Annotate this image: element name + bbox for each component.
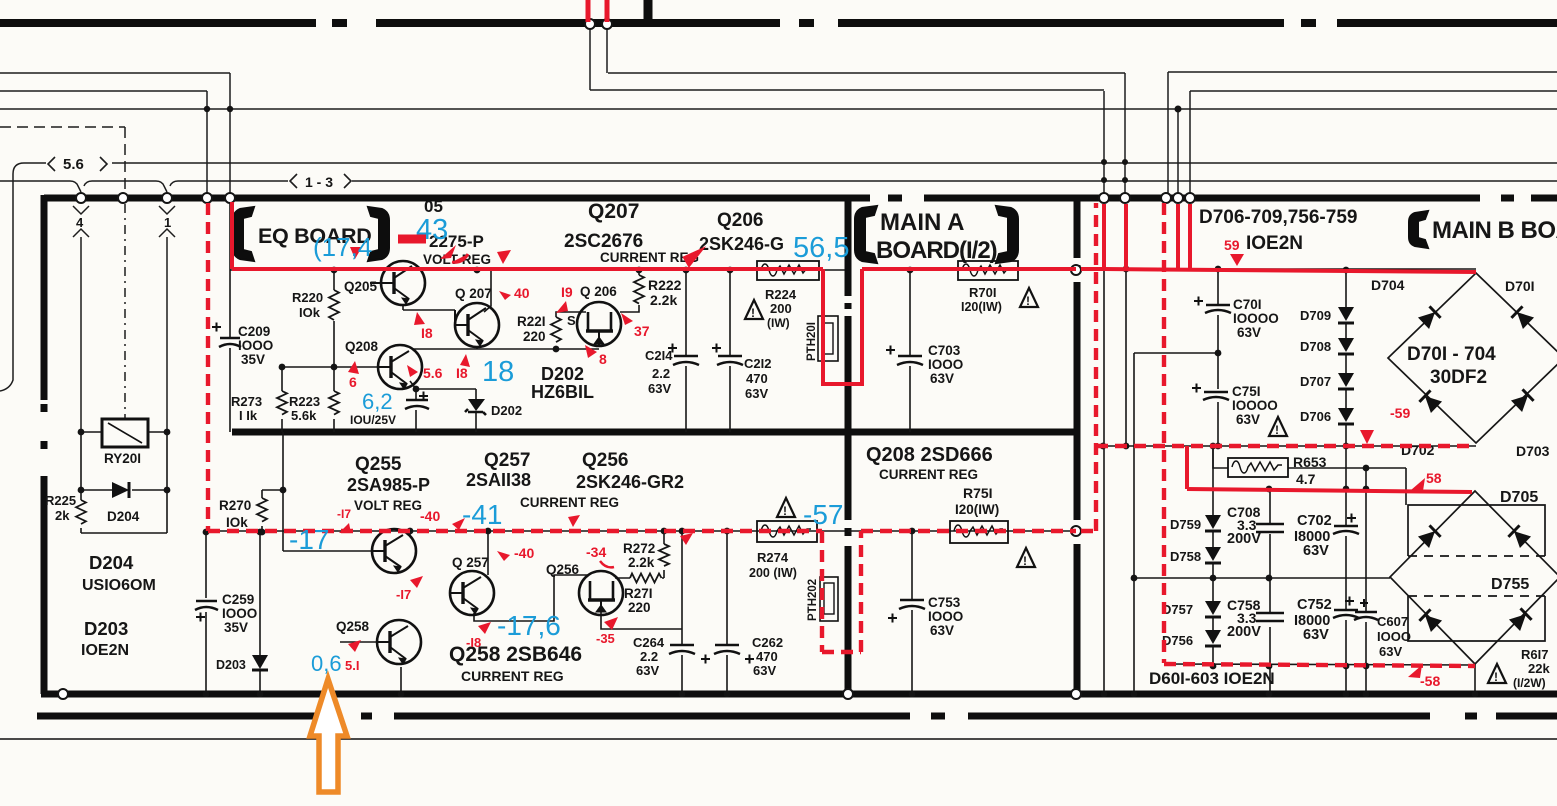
heavy dashed bus y716: [37, 713, 1557, 720]
svg-text:-35: -35: [596, 631, 615, 646]
svg-text:D60I-603 IOE2N: D60I-603 IOE2N: [1149, 669, 1275, 688]
wire verticals below pins: [81, 243, 167, 432]
wire 5.6 net y162: [0, 163, 1557, 391]
blue note -17,6: [497, 610, 561, 641]
board top border y198: [44, 195, 1557, 202]
svg-text:D759: D759: [1170, 517, 1201, 532]
warning triangle EQ: [745, 300, 763, 320]
wire D204 rail y490: [81, 489, 167, 491]
svg-text:63V: 63V: [648, 381, 671, 396]
transistor Q205: [370, 261, 425, 305]
diode D709: [1300, 307, 1354, 323]
red trace MAIN B rail to bridge: [1104, 269, 1476, 272]
svg-text:IOOO: IOOO: [238, 338, 273, 353]
red mark -59: [1360, 405, 1410, 444]
thin rule y739: [0, 738, 1557, 740]
blue note 43: [416, 214, 448, 246]
wire C259 column: [205, 532, 207, 694]
small ref labels lower: [336, 555, 580, 634]
wire x1126 column: [1125, 270, 1127, 446]
wire C607 column: [1365, 468, 1367, 694]
red mark -40 left: [420, 508, 465, 530]
red mark -40 mid: [497, 545, 534, 561]
svg-text:63V: 63V: [1379, 644, 1402, 659]
resistor R274 boxed: [749, 521, 817, 580]
svg-text:(17,4: (17,4: [313, 232, 372, 262]
wire C214 column: [685, 270, 687, 432]
bridge labels D705 D755: [1491, 489, 1538, 593]
svg-text:6: 6: [349, 374, 357, 390]
svg-text:D203: D203: [216, 658, 246, 672]
svg-text:Q256: Q256: [546, 562, 580, 577]
svg-text:470: 470: [746, 371, 768, 386]
wire Q207 collector to rail: [484, 270, 491, 312]
svg-text:4: 4: [76, 215, 84, 230]
wire C264 column: [681, 531, 683, 694]
transistor Q256 jfet: [579, 571, 623, 615]
svg-text:63V: 63V: [1303, 627, 1329, 643]
text Q207 type: [564, 200, 699, 265]
resistor R224 boxed: [757, 261, 819, 330]
diode D204: [107, 482, 140, 524]
svg-text:63V: 63V: [930, 371, 954, 386]
wire relay top rail y432: [81, 431, 167, 433]
red arrow current reg lower: [680, 533, 693, 545]
red annotation marks MAIN B: [1224, 237, 1442, 689]
svg-text:D202: D202: [541, 364, 584, 384]
dash-dot wire x125 to relay: [124, 204, 126, 418]
text Q256 type: [520, 450, 684, 510]
red arrow volt reg upper: [497, 250, 511, 264]
svg-text:IOOO: IOOO: [928, 609, 963, 624]
text Q205 type: [423, 197, 491, 267]
junction dots MAIN B: [1100, 266, 1479, 698]
junction dots on y109: [204, 106, 1182, 113]
svg-text:8: 8: [599, 351, 607, 367]
svg-text:Q208 2SD666: Q208 2SD666: [866, 444, 993, 466]
red mark 6: [348, 361, 359, 390]
svg-text:R273: R273: [231, 394, 262, 409]
svg-text:D204: D204: [107, 509, 140, 524]
wire vertical x207: [206, 91, 208, 194]
svg-text:VOLT REG: VOLT REG: [354, 498, 422, 513]
svg-text:!: !: [751, 306, 755, 320]
red dashed jog around PTH202: [822, 531, 861, 652]
svg-text:Q205: Q205: [344, 279, 378, 294]
red trace MAIN A rail: [862, 267, 1104, 271]
svg-text:D706: D706: [1300, 409, 1331, 424]
svg-text:IOE2N: IOE2N: [81, 642, 129, 659]
wire x81 segment: [80, 432, 82, 533]
text D706-709 row: [1199, 207, 1357, 254]
svg-text:1: 1: [164, 215, 171, 230]
text D203 10E2N: [81, 618, 129, 659]
wire x1104 column: [1103, 270, 1105, 694]
PTH201: [806, 316, 838, 361]
MAIN A BOARD title: [855, 206, 1018, 264]
svg-text:C262: C262: [752, 635, 783, 650]
text Q258 type: [449, 643, 582, 684]
wire Q207 emitter stub: [476, 347, 478, 349]
junction dots left block: [78, 429, 264, 698]
svg-text:!: !: [783, 504, 787, 518]
text D204 US1060M: [82, 552, 156, 594]
junction dots on y162/y180 right: [1101, 159, 1128, 183]
svg-text:200V: 200V: [1227, 531, 1261, 547]
svg-text:Q 206: Q 206: [580, 284, 617, 299]
transistor Q208: [378, 345, 422, 389]
wire Q255 collector: [409, 531, 411, 536]
svg-text:R222: R222: [648, 277, 682, 293]
wire Q256 source bus: [601, 612, 682, 629]
red dashed -58 trace y664: [1164, 664, 1475, 666]
wire under -59 trace y446: [1096, 445, 1476, 447]
wire C209 column: [229, 202, 231, 432]
warning triangle EQ lower: [777, 498, 795, 518]
connector pin 1: [159, 206, 175, 243]
svg-text:CURRENT REG: CURRENT REG: [461, 668, 564, 684]
bridge diodes D701-704: [1418, 306, 1534, 413]
svg-text:2SC2676: 2SC2676: [564, 231, 643, 252]
svg-text:D706-709,756-759: D706-709,756-759: [1199, 207, 1357, 228]
capacitor C708: [1227, 504, 1284, 547]
transistor Q207: [455, 303, 499, 347]
svg-text:PTH202: PTH202: [807, 579, 819, 621]
wire x1134 column: [1133, 353, 1135, 694]
diode D758: [1170, 547, 1221, 564]
red mark -17 small lower: [396, 576, 423, 602]
wire C708 C758 column: [1269, 489, 1271, 694]
svg-text:I9: I9: [561, 284, 573, 300]
bridge labels D701-704: [1371, 277, 1550, 459]
svg-text:R272: R272: [623, 541, 655, 556]
capacitor Q208 emitter 10u/25V: [350, 392, 429, 428]
svg-text:63V: 63V: [636, 663, 659, 678]
red mark -58: [1408, 665, 1440, 689]
red annotation marks EQ lower: [337, 507, 693, 673]
svg-text:IOk: IOk: [299, 305, 321, 320]
diode D759: [1170, 515, 1221, 532]
svg-text:200: 200: [770, 301, 792, 316]
red mark -34: [586, 544, 614, 567]
svg-text:HZ6BIL: HZ6BIL: [531, 382, 594, 402]
heavy stub x648: [644, 0, 653, 27]
svg-text:5.6k: 5.6k: [291, 408, 317, 423]
capacitor C212: [712, 344, 771, 402]
svg-text:35V: 35V: [241, 352, 265, 367]
svg-text:-57: -57: [803, 499, 843, 530]
red link to 58 rail: [1185, 446, 1189, 489]
svg-text:R223: R223: [289, 394, 320, 409]
red mark 18 mid: [456, 354, 470, 381]
red feed wires top: [588, 0, 607, 22]
svg-text:D755: D755: [1491, 576, 1529, 593]
svg-text:2k: 2k: [55, 508, 70, 523]
svg-text:R274: R274: [757, 550, 789, 565]
blue note 6,2: [362, 389, 393, 414]
svg-text:IOOOO: IOOOO: [1233, 311, 1279, 326]
wire Q208 base: [282, 366, 379, 368]
svg-text:Q257: Q257: [484, 450, 530, 471]
transistor Q258: [377, 620, 421, 664]
svg-text:2SAII38: 2SAII38: [466, 470, 531, 490]
text R751: [955, 485, 999, 517]
EQ / MAIN A separator x848: [845, 198, 852, 694]
wire Q258 leads: [340, 642, 401, 694]
red trace 58 rail: [1187, 489, 1472, 492]
svg-text:6,2: 6,2: [362, 389, 393, 414]
svg-text:D758: D758: [1170, 549, 1201, 564]
MAIN A / MAIN B separator x1077: [1074, 198, 1081, 694]
bridge diodes D705 D755: [1418, 525, 1532, 632]
svg-text:D704: D704: [1371, 277, 1405, 293]
svg-text:R70I: R70I: [969, 285, 996, 300]
svg-text:30DF2: 30DF2: [1430, 367, 1487, 388]
svg-text:D203: D203: [84, 618, 128, 639]
wire EQ upper rail y270: [230, 269, 845, 271]
capacitor C701: [1194, 297, 1279, 341]
red mark 19: [556, 284, 573, 313]
svg-text:R22I: R22I: [517, 314, 546, 329]
board bottom border y694: [41, 691, 1557, 698]
svg-text:C75I: C75I: [1232, 384, 1261, 399]
capacitor C259: [195, 592, 257, 635]
text R617: [1513, 647, 1550, 690]
svg-text:D757: D757: [1162, 602, 1193, 617]
blue note 0,6: [311, 651, 342, 676]
svg-text:C259: C259: [222, 592, 254, 607]
wire C702 C752 column: [1345, 446, 1347, 694]
orange arrow callout: [310, 679, 347, 792]
red mark -18: [466, 622, 491, 650]
red mark 37: [621, 313, 650, 339]
warning triangle R617: [1488, 664, 1506, 684]
svg-text:R653: R653: [1293, 454, 1327, 470]
svg-text:220: 220: [523, 329, 546, 344]
svg-text:MAIN A: MAIN A: [880, 209, 964, 236]
EQ board left border: [41, 195, 48, 694]
svg-text:63V: 63V: [1237, 325, 1261, 340]
text D601-603: [1149, 669, 1275, 688]
svg-text:R270: R270: [219, 498, 251, 513]
svg-text:-17: -17: [289, 524, 329, 555]
wire C212 column: [729, 270, 731, 432]
resistor R701 boxed: [958, 261, 1018, 314]
svg-text:C264: C264: [633, 635, 665, 650]
svg-text:D708: D708: [1300, 339, 1331, 354]
wire R272 top: [663, 531, 665, 544]
red annotation marks EQ upper: [348, 239, 706, 390]
svg-text:!: !: [1023, 554, 1027, 568]
svg-text:C209: C209: [238, 324, 270, 339]
svg-text:D70I: D70I: [1505, 278, 1535, 294]
blue note -41: [462, 499, 502, 530]
svg-text:I8: I8: [456, 365, 468, 381]
wire bus y73: [0, 72, 1557, 73]
svg-text:D202: D202: [491, 403, 522, 418]
text D202 HZ6B1L: [531, 364, 594, 402]
svg-text:C702: C702: [1297, 513, 1332, 529]
svg-text:D204: D204: [89, 552, 134, 573]
svg-text:IOk: IOk: [226, 515, 248, 530]
wire vertical x1104: [1103, 91, 1105, 194]
EQ BOARD title: [233, 207, 389, 261]
wire x167 segment: [166, 432, 168, 533]
red arrow Q206 top: [681, 243, 706, 270]
relay RY201: [102, 419, 148, 466]
wire bus y91: [0, 90, 1557, 91]
diode D203: [216, 655, 268, 672]
svg-text:5.I: 5.I: [345, 658, 359, 673]
wire D203 column: [259, 532, 261, 694]
svg-text:200V: 200V: [1227, 624, 1261, 640]
blue note 56,5: [793, 232, 849, 264]
svg-text:I20(IW): I20(IW): [955, 502, 999, 517]
wire C703 column: [909, 270, 911, 432]
svg-text:R224: R224: [765, 287, 797, 302]
svg-text:63V: 63V: [930, 623, 954, 638]
zener D202: [465, 399, 522, 418]
wire R272 to R271: [615, 570, 664, 578]
wire D756-759 column: [1212, 446, 1214, 666]
junction dots MAIN A: [907, 267, 916, 698]
capacitor C214: [645, 344, 699, 397]
resistor R225 2k: [45, 493, 86, 524]
svg-text:Q255: Q255: [355, 454, 402, 475]
node label 5.6: [48, 156, 107, 173]
MAIN B BOARD title: [1409, 211, 1557, 248]
top heavy bus line: [0, 19, 1557, 27]
small ref labels upper: [344, 279, 617, 354]
wire bridge bottom stub: [1474, 664, 1476, 694]
dashed wire top left: [0, 127, 125, 194]
wire MAIN A lower rail y531: [848, 530, 1076, 532]
capacitor C753: [888, 595, 963, 638]
capacitor C758: [1227, 597, 1284, 640]
svg-text:37: 37: [634, 323, 650, 339]
svg-text:5.6: 5.6: [423, 365, 443, 381]
text Q206 type: [699, 210, 784, 254]
text Q257 type: [466, 450, 531, 490]
svg-text:18: 18: [482, 356, 514, 388]
node label 1-3: [290, 174, 351, 190]
svg-text:63V: 63V: [1236, 412, 1260, 427]
text D701-704 30DF2: [1407, 344, 1496, 388]
wire R653 leads: [1213, 446, 1406, 505]
svg-text:R75I: R75I: [963, 485, 993, 501]
wire MAIN B rail y269: [1104, 268, 1476, 270]
svg-text:2.2: 2.2: [652, 366, 670, 381]
wire bus y109: [0, 108, 1557, 110]
EQ divider y432: [232, 429, 1076, 436]
wire vertical x1125: [1124, 73, 1126, 194]
svg-text:CURRENT REG: CURRENT REG: [520, 495, 619, 510]
svg-text:-41: -41: [462, 499, 502, 530]
svg-text:58: 58: [1426, 470, 1442, 486]
svg-text:-58: -58: [1420, 673, 1440, 689]
svg-text:470: 470: [756, 649, 778, 664]
warning triangle R751: [1017, 548, 1035, 568]
svg-text:MAIN B BOA: MAIN B BOA: [1432, 217, 1557, 244]
svg-text:Q208: Q208: [345, 339, 379, 354]
svg-text:C752: C752: [1297, 597, 1332, 613]
red arrow near bracket: [350, 247, 362, 259]
wire bottom of relay cell y533: [81, 532, 167, 534]
capacitor C607: [1354, 599, 1411, 659]
warning triangle R701: [1020, 288, 1038, 308]
resistor R272: [623, 541, 669, 570]
red trace EQ upper entry: [230, 202, 234, 269]
svg-text:2SK246-G: 2SK246-G: [699, 234, 784, 254]
svg-text:D756: D756: [1162, 633, 1193, 648]
connector pin 4: [73, 206, 89, 243]
red mark 40: [499, 285, 530, 301]
diode D708: [1300, 338, 1354, 354]
blue note -57: [803, 499, 843, 530]
svg-text:Q207: Q207: [588, 200, 639, 223]
svg-text:56,5: 56,5: [793, 232, 849, 264]
svg-text:C607: C607: [1377, 614, 1408, 629]
svg-text:S: S: [567, 313, 576, 328]
svg-text:63V: 63V: [753, 663, 776, 678]
wire Q205 emitter to Q207 base: [403, 305, 455, 310]
svg-text:R220: R220: [292, 290, 323, 305]
wire vertical x230: [229, 73, 231, 194]
wire C753 column: [911, 531, 913, 694]
wire Q208 emitter branch: [410, 381, 476, 432]
wire vertical x1178: [1177, 109, 1179, 194]
wire R222 top: [638, 270, 640, 275]
capacitor C702: [1294, 513, 1359, 559]
svg-text:R6I7: R6I7: [1521, 647, 1548, 662]
svg-text:IOOOO: IOOOO: [1232, 398, 1278, 413]
svg-text:220: 220: [628, 600, 651, 615]
diode D757: [1162, 601, 1221, 617]
resistor R220: [292, 290, 339, 320]
svg-text:-I8: -I8: [466, 635, 481, 650]
svg-text:IOE2N: IOE2N: [1246, 233, 1303, 254]
svg-text:I8: I8: [421, 325, 433, 341]
diode D706: [1300, 408, 1354, 424]
svg-text:PTH20I: PTH20I: [806, 322, 818, 361]
svg-text:Q258: Q258: [336, 619, 370, 634]
svg-text:R225: R225: [45, 493, 76, 508]
svg-text:I20(IW): I20(IW): [961, 300, 1002, 314]
red trace jog around PTH201: [823, 269, 862, 384]
svg-text:22k: 22k: [1528, 661, 1550, 676]
svg-text:C753: C753: [928, 595, 961, 610]
transistor Q206 jfet: [577, 302, 621, 346]
wire R270 branch: [262, 432, 372, 551]
wire MAIN A upper rail y270: [862, 269, 1076, 271]
capacitor C751: [1192, 384, 1278, 428]
transistor Q255: [372, 529, 416, 573]
svg-text:USIO6OM: USIO6OM: [82, 577, 156, 594]
svg-text:-40: -40: [514, 545, 534, 561]
svg-text:40: 40: [514, 285, 530, 301]
red dashed riser beside separator: [1094, 203, 1098, 531]
svg-text:Q 257: Q 257: [452, 555, 489, 570]
wire vertical x607: [606, 28, 608, 73]
svg-text:-40: -40: [420, 508, 440, 524]
wire vertical x1190: [1189, 91, 1191, 194]
text Q208 2SD666: [866, 444, 993, 482]
warning triangle D706: [1269, 417, 1287, 437]
red dashed drop x208: [206, 203, 210, 531]
svg-text:D709: D709: [1300, 308, 1331, 323]
svg-text:C2I4: C2I4: [645, 348, 673, 363]
resistor R271: [624, 574, 662, 616]
